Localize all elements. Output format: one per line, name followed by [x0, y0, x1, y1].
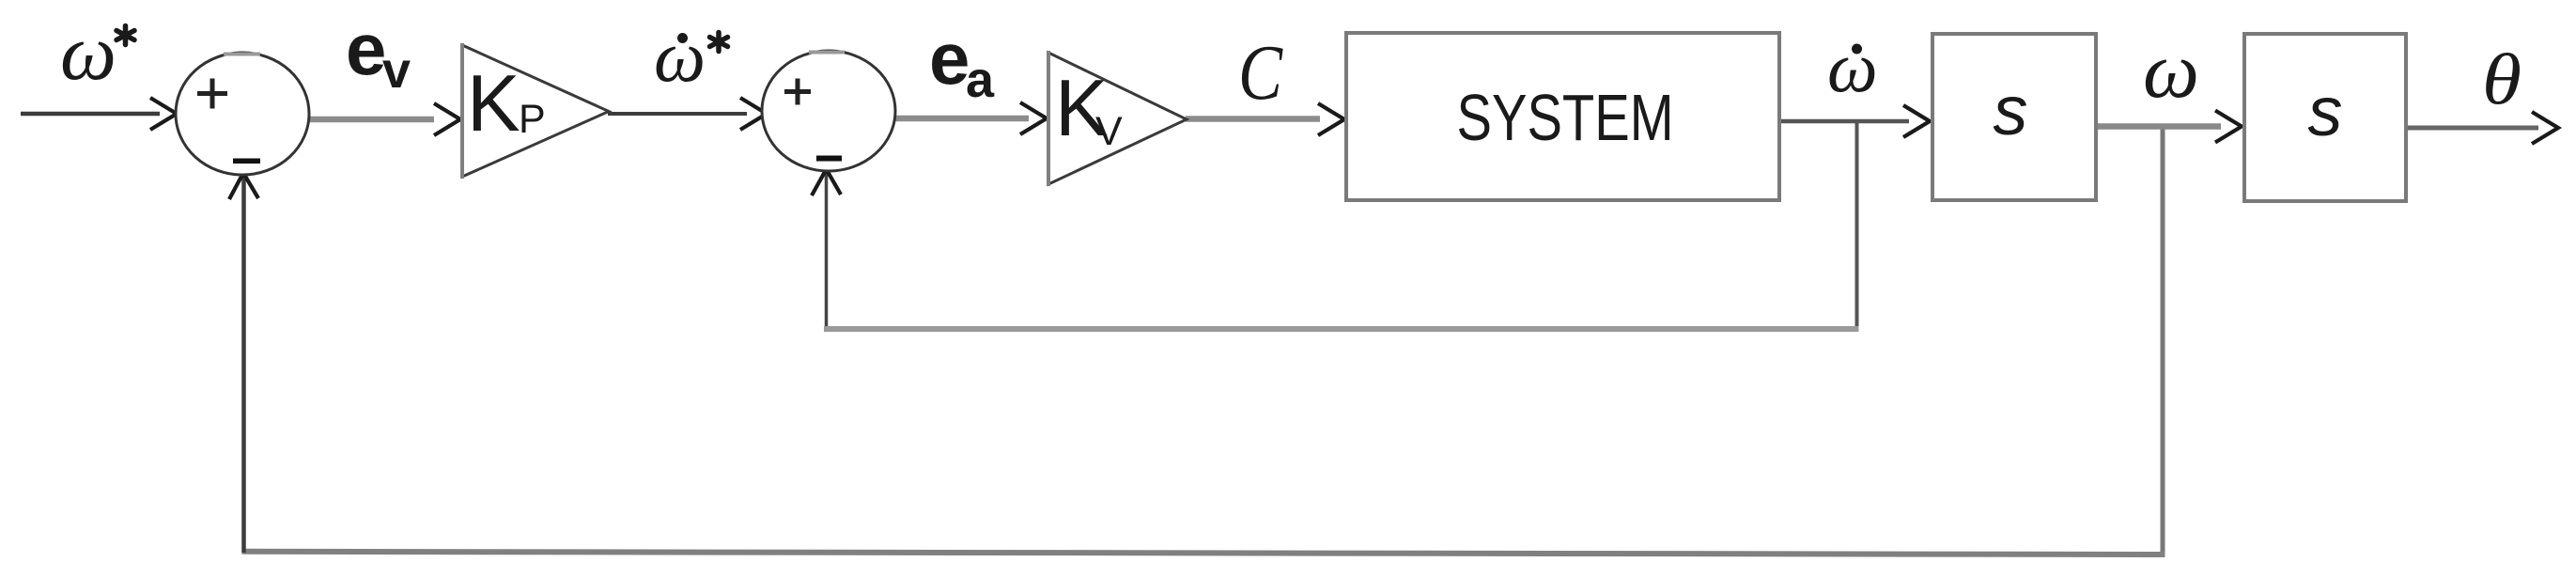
svg-text:ω: ω — [654, 15, 706, 97]
svg-text:v: v — [382, 42, 411, 99]
svg-text:s: s — [2308, 72, 2343, 150]
svg-text:P: P — [519, 97, 546, 142]
svg-text:SYSTEM: SYSTEM — [1457, 81, 1674, 154]
svg-text:s: s — [1994, 71, 2028, 149]
svg-text:ω: ω — [2143, 26, 2199, 115]
svg-text:θ: θ — [2482, 39, 2522, 119]
svg-text:a: a — [966, 52, 995, 108]
svg-text:ω: ω — [60, 8, 116, 97]
svg-text:e: e — [929, 17, 970, 100]
svg-text:e: e — [346, 8, 386, 90]
svg-text:ω: ω — [1827, 29, 1878, 108]
svg-text:V: V — [1095, 109, 1123, 154]
svg-text:C: C — [1238, 29, 1283, 117]
svg-text:K: K — [467, 59, 520, 148]
